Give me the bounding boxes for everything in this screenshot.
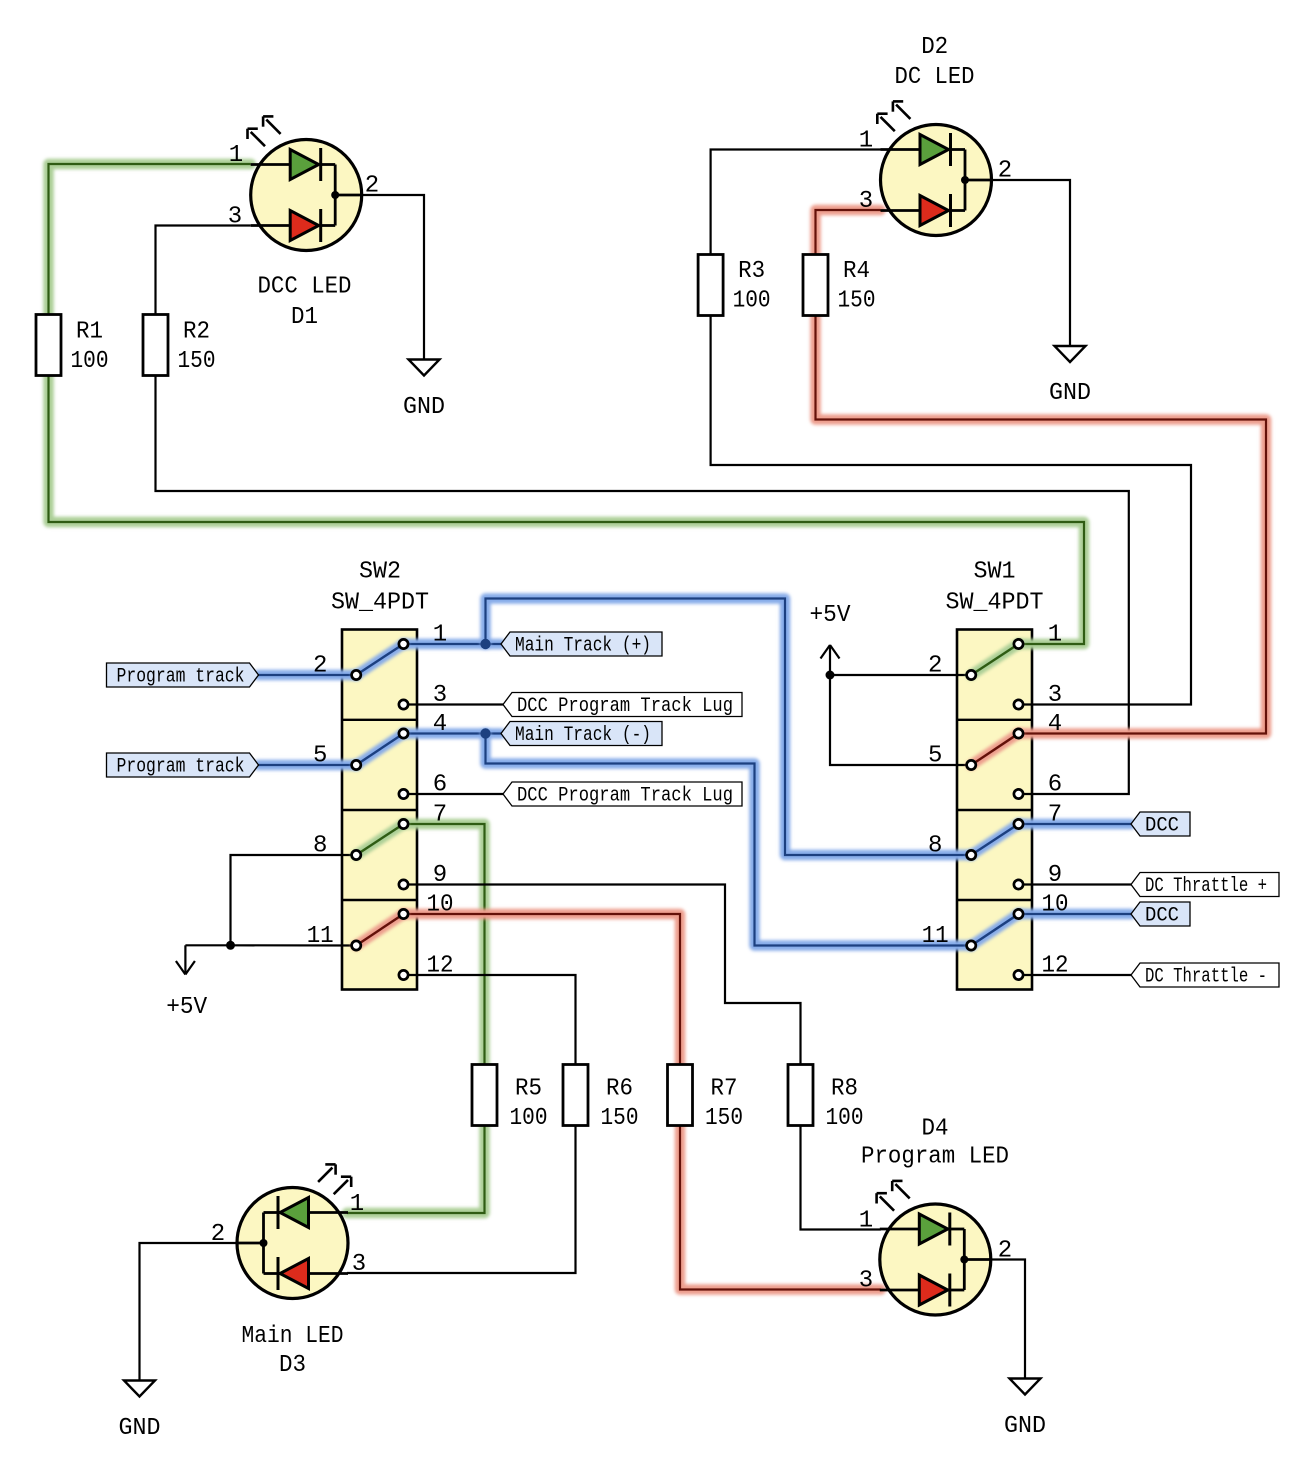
- resistor R1 value label 100: [71, 348, 109, 375]
- LED D1 emission arrows: [248, 116, 281, 146]
- svg-text:10: 10: [427, 892, 454, 919]
- svg-text:100: 100: [733, 288, 771, 315]
- svg-text:GND: GND: [119, 1415, 161, 1442]
- resistor R4 value label 150: [838, 288, 876, 315]
- wire black: R8 bottom to D4 pin1: [801, 1125, 881, 1230]
- resistor R5 body: [472, 1065, 497, 1126]
- switch SW1 pin 10 circle: [1014, 909, 1023, 918]
- D1 pin 2 number: [365, 173, 379, 200]
- switch SW1 pin 8 circle: [967, 850, 976, 859]
- svg-text:D3: D3: [279, 1352, 306, 1379]
- svg-text:100: 100: [826, 1105, 864, 1132]
- wire blue net Main Track (-): junction to SW1 pin11: [486, 734, 972, 946]
- svg-text:9: 9: [1048, 862, 1062, 889]
- svg-text:11: 11: [922, 923, 949, 950]
- wire red net: SW2 pin10 to R7 top: [404, 914, 681, 1065]
- svg-text:150: 150: [705, 1105, 743, 1132]
- svg-text:6: 6: [1048, 772, 1062, 799]
- LED D1 green diode: [251, 148, 336, 181]
- switch SW1 pin 4 circle: [1014, 729, 1023, 738]
- svg-text:GND: GND: [1049, 380, 1091, 407]
- LED D1 red diode: [251, 209, 336, 242]
- wire blue net Main Track (+): SW2 pin1 to label: [404, 639, 502, 650]
- LED D4 reference label D4: [922, 1116, 949, 1143]
- switch SW1 value label SW_4PDT: [946, 590, 1044, 617]
- svg-text:5: 5: [313, 743, 327, 770]
- svg-text:2: 2: [998, 158, 1012, 185]
- svg-text:R8: R8: [831, 1076, 858, 1103]
- switch SW1 pin 3 number: [1048, 682, 1062, 709]
- svg-text:10: 10: [1042, 892, 1069, 919]
- resistor R4 reference label: [843, 258, 870, 285]
- switch SW1 pin 2 number: [928, 653, 942, 680]
- switch SW1 pin 7 number: [1048, 802, 1062, 829]
- LED D4 emission arrows: [877, 1181, 910, 1211]
- switch SW1 pin 2 circle: [967, 670, 976, 679]
- LED D2 internal junction: [961, 176, 969, 184]
- D2 pin 1 number: [859, 128, 873, 155]
- svg-text:6: 6: [433, 772, 447, 799]
- resistor R1 body: [36, 315, 61, 376]
- svg-text:R3: R3: [738, 258, 765, 285]
- svg-text:R2: R2: [183, 318, 210, 345]
- switch SW1 pin 10 number: [1042, 892, 1069, 919]
- wire black: D4 pin2 to GND: [990, 1260, 1025, 1379]
- wire red net: R4 bottom to SW1 pin4: [816, 315, 1267, 734]
- global label Main Track (+): [501, 632, 662, 658]
- LED D1 common cathode link: [335, 165, 362, 226]
- switch SW1 pin 1 circle: [1014, 639, 1023, 648]
- wire black: SW2 pin3 to DCC Program Track Lug: [404, 703, 504, 705]
- ground label GND at D4: [1004, 1413, 1046, 1440]
- switch SW1 pin 6 circle: [1014, 789, 1023, 798]
- D3 pin 1 number: [350, 1191, 364, 1218]
- svg-text:Program track: Program track: [117, 756, 245, 779]
- svg-text:1: 1: [433, 622, 447, 649]
- resistor R2 value label 150: [178, 348, 216, 375]
- switch SW2 body SW_4PDT: [342, 630, 417, 990]
- svg-text:DCC: DCC: [1145, 815, 1179, 838]
- switch SW1 lever pole1 pin2-pin1: [971, 644, 1018, 675]
- svg-text:3: 3: [859, 188, 873, 215]
- resistor R4 body: [803, 255, 828, 316]
- global label DCC at SW1 pin10: [1131, 902, 1190, 928]
- svg-text:DC Thrattle +: DC Thrattle +: [1145, 875, 1267, 898]
- svg-text:7: 7: [1048, 802, 1062, 829]
- global label DCC Program Track Lug at SW2 pin3: [503, 693, 742, 719]
- D1 pin 1 number: [229, 142, 243, 169]
- switch SW1 lever pole3 pin8-pin7: [971, 824, 1018, 855]
- svg-text:Main LED: Main LED: [242, 1323, 344, 1350]
- wire blue net Program track: label to SW2 pin5: [259, 760, 357, 771]
- svg-text:DCC Program Track Lug: DCC Program Track Lug: [517, 695, 733, 718]
- switch SW2 pin 8 circle: [352, 850, 361, 859]
- switch SW2 pin 5 circle: [352, 760, 361, 769]
- switch SW2 lever pole1 pin2-pin1: [356, 644, 403, 675]
- switch SW2 lever pole4 pin11-pin10: [356, 914, 403, 946]
- junction node +5V at SW2: [226, 941, 235, 950]
- LED D2 value label DC LED: [895, 64, 975, 91]
- resistor R6 body: [563, 1065, 588, 1126]
- global label Program track at SW2 pin5: [107, 753, 259, 779]
- switch SW1 body SW_4PDT: [957, 630, 1032, 990]
- switch SW2 pin 6 circle: [399, 789, 408, 798]
- wire black: D1 pin2 to GND: [362, 195, 424, 360]
- switch SW2 lever pole3 pin8-pin7: [356, 824, 403, 855]
- switch SW2 pin 2 circle: [352, 670, 361, 679]
- wire green net DCC-LED: D1 pin1 to R1 top: [49, 164, 251, 315]
- switch SW1 pin 5 number: [928, 743, 942, 770]
- switch SW2 pin 2 number: [313, 653, 327, 680]
- switch SW1 lever pole4 pin11-pin10: [971, 914, 1018, 946]
- svg-text:100: 100: [510, 1105, 548, 1132]
- LED D2 body circle: [881, 125, 992, 236]
- resistor R7 reference label: [711, 1076, 738, 1103]
- switch SW2 pin 9 number: [433, 862, 447, 889]
- LED D2 green diode: [881, 133, 966, 166]
- wire blue net Main Track (+): junction to SW1 pin8: [486, 599, 972, 856]
- LED D3 internal junction: [260, 1239, 268, 1247]
- svg-text:150: 150: [601, 1105, 639, 1132]
- ground symbol GND at D1: [409, 360, 440, 376]
- svg-text:8: 8: [928, 833, 942, 860]
- global label Main Track (-): [501, 722, 662, 748]
- svg-text:4: 4: [1048, 711, 1062, 738]
- svg-text:DC Thrattle -: DC Thrattle -: [1145, 966, 1267, 989]
- LED D2 reference label D2: [921, 34, 948, 61]
- global label Program track at SW2 pin2: [107, 663, 259, 689]
- svg-text:SW2: SW2: [359, 559, 401, 586]
- resistor R3 body: [698, 255, 723, 316]
- power symbol +5V at SW2: [176, 945, 195, 974]
- svg-text:GND: GND: [1004, 1413, 1046, 1440]
- wire black: R6 bottom to D3 pin3: [347, 1125, 576, 1273]
- svg-text:100: 100: [71, 348, 109, 375]
- power label +5V at SW1: [810, 602, 852, 629]
- wire black: +5V junction down to SW1 pin5: [830, 675, 971, 765]
- wire blue net Program track: label to SW2 pin2: [259, 670, 357, 681]
- wire blue net DCC: SW1 pin7 to label: [1019, 819, 1132, 830]
- LED D3 common cathode link: [237, 1213, 264, 1274]
- LED D1 reference label D1: [291, 304, 318, 331]
- switch SW2 pin 1 number: [433, 622, 447, 649]
- switch SW2 pin 6 number: [433, 772, 447, 799]
- svg-text:SW_4PDT: SW_4PDT: [946, 590, 1044, 617]
- D3 pin 2 number: [211, 1221, 225, 1248]
- switch SW2 pin 3 circle: [399, 700, 408, 709]
- switch SW2 pin 8 number: [313, 833, 327, 860]
- switch SW1 lever pole2 pin5-pin4: [971, 734, 1018, 766]
- wire black: junction to SW2 pin11: [231, 944, 357, 946]
- resistor R8 body: [788, 1065, 813, 1126]
- wire red net: R7 bottom to D4 pin3: [680, 1125, 881, 1290]
- switch SW2 pin 10 circle: [399, 909, 408, 918]
- switch SW1 pin 12 number: [1042, 953, 1069, 980]
- wire black: D3 pin2 to GND: [140, 1243, 239, 1381]
- resistor R7 value label 150: [705, 1105, 743, 1132]
- svg-text:9: 9: [433, 862, 447, 889]
- power label +5V at SW2: [166, 994, 208, 1021]
- svg-text:D2: D2: [921, 34, 948, 61]
- wire green net: R1 bottom to SW1 pin1: [49, 375, 1085, 644]
- switch SW1 pin 9 number: [1048, 862, 1062, 889]
- svg-text:5: 5: [928, 743, 942, 770]
- svg-text:+5V: +5V: [810, 602, 852, 629]
- svg-text:R5: R5: [515, 1076, 542, 1103]
- switch SW2 pin 10 number: [427, 892, 454, 919]
- svg-text:3: 3: [859, 1268, 873, 1295]
- wire black: D2 pin1 to R3 top: [711, 150, 881, 256]
- switch SW2 pin 9 circle: [399, 880, 408, 889]
- resistor R1 reference label: [76, 318, 103, 345]
- switch SW2 pin 7 number: [433, 802, 447, 829]
- switch SW2 pin 11 circle: [352, 941, 361, 950]
- svg-text:R6: R6: [606, 1076, 633, 1103]
- svg-text:150: 150: [838, 288, 876, 315]
- svg-text:2: 2: [928, 653, 942, 680]
- junction node Main Track (-): [480, 728, 490, 738]
- D2 pin 3 number: [859, 188, 873, 215]
- resistor R8 value label 100: [826, 1105, 864, 1132]
- wire black: SW1 pin9 to DC Thrattle + label: [1019, 883, 1132, 885]
- svg-text:D1: D1: [291, 304, 318, 331]
- LED D3 value label Main LED: [242, 1323, 344, 1350]
- svg-text:DC LED: DC LED: [895, 64, 975, 91]
- wire black: SW2 pin8 to +5V junction: [231, 855, 357, 945]
- switch SW1 pin 11 circle: [967, 941, 976, 950]
- ground label GND at D2: [1049, 380, 1091, 407]
- LED D4 value label Program LED: [861, 1144, 1009, 1171]
- LED D4 body circle: [880, 1204, 991, 1315]
- wire black: D1 pin3 to R2 top: [156, 226, 251, 316]
- svg-text:12: 12: [1042, 953, 1069, 980]
- svg-text:2: 2: [211, 1221, 225, 1248]
- resistor R7 body: [668, 1065, 693, 1126]
- switch SW1 pin 1 number: [1048, 622, 1062, 649]
- switch SW1 pin 4 number: [1048, 711, 1062, 738]
- svg-text:2: 2: [998, 1238, 1012, 1265]
- svg-text:DCC: DCC: [1145, 905, 1179, 928]
- LED D3 green diode: [264, 1196, 349, 1229]
- svg-text:Program track: Program track: [117, 666, 245, 689]
- switch SW1 pin 9 circle: [1014, 880, 1023, 889]
- D4 pin 1 number: [859, 1208, 873, 1235]
- resistor R8 reference label: [831, 1076, 858, 1103]
- LED D4 internal junction: [960, 1256, 968, 1264]
- switch SW2 pin 7 circle: [399, 819, 408, 828]
- wire black: SW2 pin12 to R6 top: [404, 975, 576, 1065]
- LED D4 common cathode link: [964, 1229, 991, 1290]
- LED D2 common cathode link: [965, 150, 992, 211]
- ground symbol GND at D2: [1055, 346, 1086, 362]
- wire black: R2 bottom to SW1 pin6: [156, 375, 1129, 794]
- svg-text:7: 7: [433, 802, 447, 829]
- global label DC Thrattle + at SW1 pin9: [1131, 873, 1279, 899]
- resistor R2 reference label: [183, 318, 210, 345]
- wire black: junction to +5V symbol at SW2: [185, 944, 230, 946]
- LED D3 red diode: [264, 1257, 349, 1290]
- wire black: D2 pin2 to GND: [992, 180, 1071, 346]
- svg-text:DCC LED: DCC LED: [258, 274, 352, 301]
- svg-text:GND: GND: [403, 394, 445, 421]
- global label DCC Program Track Lug at SW2 pin6: [503, 782, 742, 808]
- switch SW2 pin 11 number: [307, 923, 334, 950]
- switch SW1 reference label: [974, 559, 1016, 586]
- wire black: SW2 pin9 to R8 top: [404, 885, 801, 1066]
- junction node +5V at SW1: [826, 671, 835, 680]
- svg-text:1: 1: [229, 142, 243, 169]
- svg-text:12: 12: [427, 953, 454, 980]
- wire black: SW1 pin2 to +5V junction: [830, 674, 971, 676]
- switch SW2 pin 12 number: [427, 953, 454, 980]
- wire black: SW1 pin12 to DC Thrattle - label: [1019, 974, 1132, 976]
- LED D3 body circle: [237, 1188, 348, 1299]
- svg-text:3: 3: [433, 682, 447, 709]
- resistor R5 value label 100: [510, 1105, 548, 1132]
- power symbol +5V at SW1: [821, 645, 840, 675]
- resistor R3 reference label: [738, 258, 765, 285]
- svg-text:DCC Program Track Lug: DCC Program Track Lug: [517, 785, 733, 808]
- D3 pin 3 number: [352, 1251, 366, 1278]
- wire blue net DCC: SW1 pin10 to label: [1019, 909, 1132, 920]
- switch SW2 pin 12 circle: [399, 970, 408, 979]
- LED D3 reference label D3: [279, 1352, 306, 1379]
- LED D2 emission arrows: [877, 101, 910, 131]
- D4 pin 3 number: [859, 1268, 873, 1295]
- svg-text:R1: R1: [76, 318, 103, 345]
- svg-text:2: 2: [365, 173, 379, 200]
- LED D4 green diode: [880, 1213, 965, 1246]
- ground symbol GND at D3: [124, 1381, 155, 1397]
- switch SW2 lever pole2 pin5-pin4: [356, 734, 403, 766]
- switch SW1 pin 11 number: [922, 923, 949, 950]
- switch SW1 pin 8 number: [928, 833, 942, 860]
- LED D1 body circle: [251, 140, 362, 251]
- svg-text:R4: R4: [843, 258, 870, 285]
- global label DC Thrattle - at SW1 pin12: [1131, 963, 1279, 989]
- switch SW2 reference label: [359, 559, 401, 586]
- resistor R5 reference label: [515, 1076, 542, 1103]
- switch SW1 pin 5 circle: [967, 760, 976, 769]
- svg-text:150: 150: [178, 348, 216, 375]
- junction node Main Track (+): [480, 639, 490, 649]
- svg-text:1: 1: [859, 1208, 873, 1235]
- ground symbol GND at D4: [1010, 1379, 1041, 1395]
- svg-text:+5V: +5V: [166, 994, 208, 1021]
- svg-text:D4: D4: [922, 1116, 949, 1143]
- switch SW2 pin 4 number: [433, 711, 447, 738]
- svg-text:3: 3: [228, 204, 242, 231]
- LED D2 red diode: [881, 194, 966, 227]
- svg-text:8: 8: [313, 833, 327, 860]
- LED D1 value label DCC LED: [258, 274, 352, 301]
- LED D3 emission arrows: [318, 1164, 351, 1194]
- svg-text:Program LED: Program LED: [861, 1144, 1009, 1171]
- switch SW2 pin 3 number: [433, 682, 447, 709]
- svg-text:R7: R7: [711, 1076, 738, 1103]
- LED D4 red diode: [880, 1274, 965, 1307]
- svg-text:1: 1: [1048, 622, 1062, 649]
- svg-text:4: 4: [433, 711, 447, 738]
- switch SW1 pin 12 circle: [1014, 970, 1023, 979]
- resistor R6 value label 150: [601, 1105, 639, 1132]
- switch SW1 pin 3 circle: [1014, 700, 1023, 709]
- D1 pin 3 number: [228, 204, 242, 231]
- ground label GND at D3: [119, 1415, 161, 1442]
- ground label GND at D1: [403, 394, 445, 421]
- LED D1 internal junction: [331, 191, 339, 199]
- resistor R3 value label 100: [733, 288, 771, 315]
- D2 pin 2 number: [998, 158, 1012, 185]
- svg-text:2: 2: [313, 653, 327, 680]
- wire black: R3 bottom to SW1 pin3: [711, 315, 1191, 705]
- global label DCC at SW1 pin7: [1131, 812, 1190, 838]
- wire green net: SW2 pin7 to R5 top: [404, 824, 485, 1065]
- svg-text:Main Track (-): Main Track (-): [515, 724, 651, 747]
- resistor R2 body: [143, 315, 168, 376]
- resistor R6 reference label: [606, 1076, 633, 1103]
- wire green net: R5 bottom to D3 pin1: [347, 1125, 485, 1213]
- svg-text:1: 1: [859, 128, 873, 155]
- switch SW1 pin 7 circle: [1014, 819, 1023, 828]
- switch SW2 value label SW_4PDT: [331, 590, 429, 617]
- switch SW1 pin 6 number: [1048, 772, 1062, 799]
- svg-text:SW_4PDT: SW_4PDT: [331, 590, 429, 617]
- D4 pin 2 number: [998, 1238, 1012, 1265]
- svg-text:3: 3: [352, 1251, 366, 1278]
- svg-text:11: 11: [307, 923, 334, 950]
- svg-text:Main Track (+): Main Track (+): [515, 635, 651, 658]
- switch SW2 pin 4 circle: [399, 729, 408, 738]
- svg-text:3: 3: [1048, 682, 1062, 709]
- wire black: SW2 pin6 to DCC Program Track Lug: [404, 793, 504, 795]
- wire blue net Main Track (-): SW2 pin4 to label: [404, 728, 502, 739]
- switch SW2 pin 1 circle: [399, 639, 408, 648]
- svg-text:SW1: SW1: [974, 559, 1016, 586]
- switch SW2 pin 5 number: [313, 743, 327, 770]
- svg-text:1: 1: [350, 1191, 364, 1218]
- wire red net: D2 pin3 to R4 top: [816, 210, 881, 255]
